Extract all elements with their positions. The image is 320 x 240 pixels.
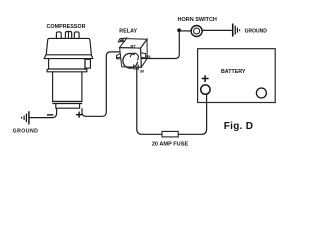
wire: junction to horn switch	[179, 30, 191, 32]
svg-text:GROUND: GROUND	[13, 129, 39, 135]
battery BT1	[198, 49, 276, 103]
mounting tab	[118, 38, 126, 42]
svg-text:87: 87	[130, 44, 136, 50]
body base	[56, 104, 80, 109]
svg-text:20 AMP FUSE: 20 AMP FUSE	[152, 142, 189, 148]
relay K1	[117, 38, 148, 69]
svg-text:COMPRESSOR: COMPRESSOR	[47, 24, 86, 30]
junction node	[177, 28, 181, 32]
fuse F1	[162, 131, 178, 137]
svg-text:RELAY: RELAY	[119, 28, 137, 34]
svg-text:30: 30	[140, 68, 145, 73]
outlet tab	[85, 59, 90, 68]
pin 86 tab	[117, 54, 120, 59]
ground symbol top-right	[233, 24, 240, 37]
svg-text:BATTERY: BATTERY	[221, 69, 246, 75]
plus terminal label	[76, 112, 82, 118]
svg-text:86: 86	[117, 55, 122, 60]
top face	[120, 39, 147, 49]
wire: fuse to battery positive	[178, 94, 206, 134]
battery positive terminal	[201, 85, 210, 94]
horn switch S1	[191, 26, 202, 37]
wire: relay pin 85 to junction	[141, 31, 179, 59]
terminal post 3	[74, 32, 79, 38]
head flange	[44, 55, 93, 59]
pin 30 tab	[134, 64, 139, 69]
svg-text:HORN SWITCH: HORN SWITCH	[177, 17, 216, 23]
battery negative terminal	[256, 88, 266, 98]
body	[53, 72, 82, 102]
wire: compressor minus to ground	[30, 108, 57, 117]
wire: horn switch to ground	[202, 29, 231, 31]
svg-text:GROUND: GROUND	[245, 28, 268, 34]
compressor head	[46, 38, 91, 54]
coil	[123, 53, 138, 68]
lower flange	[47, 69, 87, 72]
wire: compressor plus to relay pin 86	[82, 52, 121, 116]
wire: relay pin 30 down to fuse	[137, 67, 162, 135]
body bottom band	[52, 102, 82, 104]
ground symbol bottom-left	[22, 111, 29, 124]
minus terminal label	[47, 114, 53, 116]
terminal post 2	[65, 32, 71, 39]
neck	[49, 59, 85, 69]
svg-text:Fig. D: Fig. D	[224, 121, 254, 132]
compressor M1	[44, 32, 93, 109]
right face	[141, 39, 148, 67]
battery plus sign	[202, 75, 209, 82]
terminal post 1	[56, 32, 61, 38]
front face	[120, 48, 142, 68]
pin 85 tab	[141, 53, 145, 58]
